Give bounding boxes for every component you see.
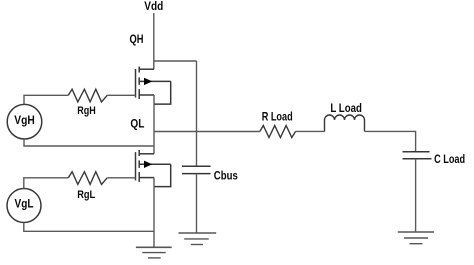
- wire R Load to L Load: [296, 130, 325, 132]
- capacitor Cbus: [182, 166, 211, 173]
- svg-text:VgL: VgL: [15, 198, 34, 210]
- ground main (below QL): [136, 247, 172, 258]
- wire VgL positive lead: [24, 178, 69, 189]
- transistor QH: [136, 67, 171, 99]
- svg-text:RgH: RgH: [77, 105, 96, 117]
- wire Vdd vertical lead: [153, 13, 155, 69]
- wire Cbus to ground: [196, 174, 198, 233]
- svg-text:QH: QH: [130, 34, 144, 46]
- wire C Load to ground: [415, 159, 417, 232]
- svg-text:R Load: R Load: [262, 111, 293, 123]
- source VgH: [7, 104, 42, 139]
- svg-text:QL: QL: [130, 119, 144, 131]
- wire L Load to C Load: [365, 131, 416, 151]
- svg-text:Vdd: Vdd: [144, 1, 163, 13]
- wire output branch to load: [154, 131, 260, 133]
- svg-text:VgH: VgH: [14, 115, 35, 127]
- wire Vdd rail to right bus: [154, 60, 197, 62]
- svg-text:L Load: L Load: [330, 103, 362, 115]
- wire VgH positive lead: [24, 95, 68, 104]
- ground under Cbus: [179, 233, 217, 245]
- ground under C Load: [398, 232, 434, 244]
- wire QL source to ground: [153, 178, 155, 248]
- source VgL: [7, 189, 41, 223]
- wire switch node vertical (QH source to QL drain): [153, 95, 155, 154]
- inductor L Load: [325, 115, 365, 132]
- svg-text:RgL: RgL: [77, 189, 95, 201]
- wire QH body-source loop: [154, 81, 171, 104]
- wire RgH to QH gate: [107, 94, 135, 96]
- resistor RgH: [68, 89, 107, 102]
- wire VgH negative lead to switch node: [24, 139, 154, 146]
- resistor R Load: [260, 126, 296, 138]
- transistor QL: [136, 150, 171, 182]
- svg-text:C Load: C Load: [434, 154, 465, 166]
- wire right bus vertical (Vdd to Cbus): [196, 61, 198, 166]
- wire RgL to QL gate: [107, 177, 135, 179]
- wire VgL negative lead to ground rail: [24, 222, 154, 231]
- wire QL body-source loop: [154, 164, 171, 186]
- resistor RgL: [68, 172, 107, 185]
- capacitor C Load: [403, 152, 432, 159]
- svg-text:Cbus: Cbus: [214, 170, 238, 182]
